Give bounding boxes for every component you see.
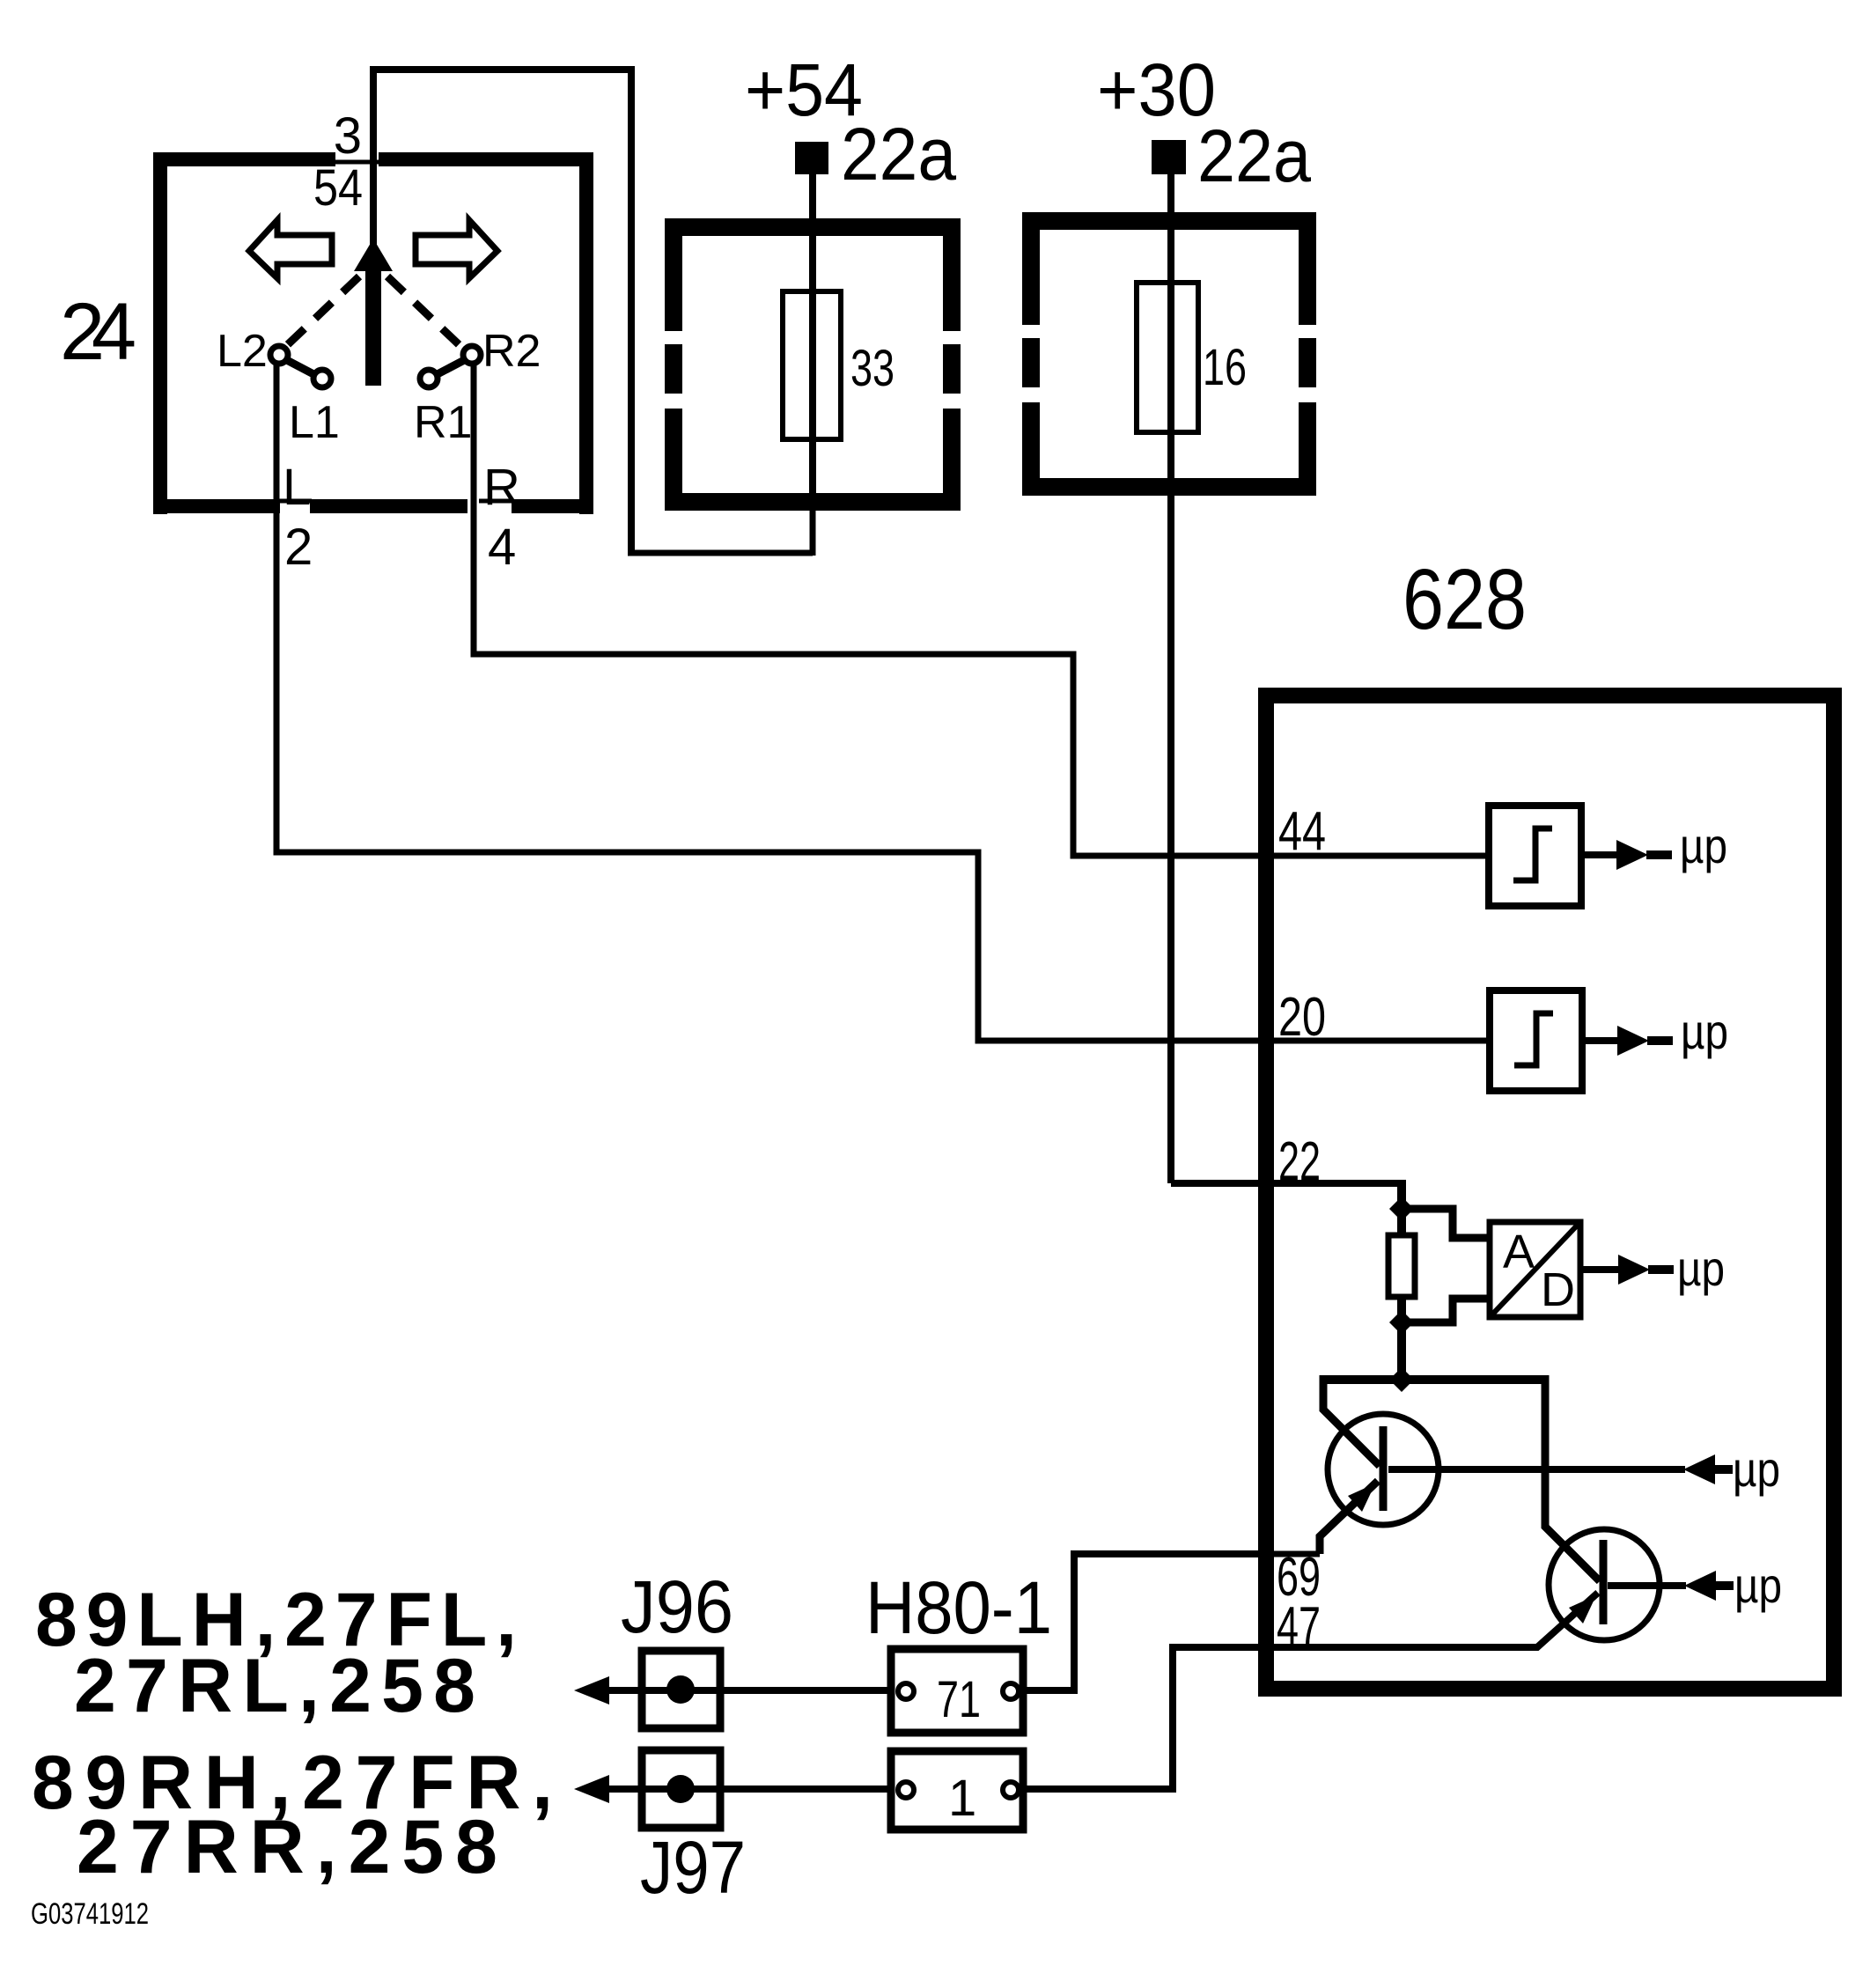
transistor Q1 circle xyxy=(1328,1414,1439,1525)
svg-text:16: 16 xyxy=(1203,339,1247,396)
svg-text:2: 2 xyxy=(284,519,313,576)
left direction arrow icon xyxy=(249,220,332,278)
svg-text:µp: µp xyxy=(1677,1241,1725,1296)
svg-text:4: 4 xyxy=(488,519,516,576)
svg-text:L: L xyxy=(283,459,311,516)
svg-text:R1: R1 xyxy=(414,397,472,448)
arrow A/D to microprocessor xyxy=(1618,1255,1650,1285)
comparator 1 box xyxy=(1489,806,1581,906)
arrow comparator 1 to microprocessor xyxy=(1616,840,1648,870)
svg-text:22: 22 xyxy=(1278,1131,1321,1192)
contact L2 xyxy=(270,346,288,364)
wire comparator 2 output xyxy=(1582,1037,1619,1044)
comparator 2 box xyxy=(1490,990,1582,1091)
wire Q1 emitter xyxy=(1320,1481,1378,1554)
contact R1 xyxy=(420,370,438,387)
arrow Q1 emitter xyxy=(1348,1484,1375,1512)
wire 71 to pin 69 xyxy=(1023,1554,1273,1690)
svg-text:A: A xyxy=(1503,1226,1535,1278)
wire pin22 chain down xyxy=(1397,1180,1406,1380)
pin tick pin3 xyxy=(313,160,379,165)
resistor xyxy=(1388,1235,1415,1297)
svg-text:22a: 22a xyxy=(1197,114,1311,197)
arrow Q2 emitter xyxy=(1569,1595,1596,1624)
contact blade R2-R1 xyxy=(434,357,469,376)
wire node horizontal xyxy=(1323,1375,1545,1384)
fuse 33 holder box (dashed) xyxy=(665,218,961,511)
transistor Q2 circle xyxy=(1549,1529,1660,1640)
wire +54 through fuse 33 xyxy=(809,173,816,509)
wire Q1 base xyxy=(1323,1375,1380,1466)
wire top horizontal xyxy=(370,66,635,73)
arrow out J96 xyxy=(574,1676,609,1705)
wire A/D output xyxy=(1580,1266,1620,1273)
turn signal switch 24 box xyxy=(153,152,593,514)
svg-text:20: 20 xyxy=(1278,987,1326,1048)
wire branch lower to A/D xyxy=(1402,1299,1490,1322)
svg-text:24: 24 xyxy=(60,287,136,377)
arrow out J97 xyxy=(574,1775,609,1803)
svg-text:1: 1 xyxy=(948,1770,976,1827)
svg-text:µp: µp xyxy=(1734,1557,1782,1613)
arrow microprocessor to Q2 xyxy=(1684,1571,1716,1601)
svg-text:27RR,258: 27RR,258 xyxy=(77,1805,497,1889)
contact R2 xyxy=(463,346,481,364)
svg-text:J97: J97 xyxy=(640,1826,746,1909)
contact L1 xyxy=(313,370,331,387)
pin tick pin L xyxy=(278,499,312,504)
svg-text:44: 44 xyxy=(1278,801,1326,862)
wire fuse33 bottom lead xyxy=(810,507,816,556)
svg-text:27RL,258: 27RL,258 xyxy=(74,1644,475,1728)
wire Q1 collector to microprocessor xyxy=(1388,1466,1685,1473)
fuse element 33 xyxy=(783,291,841,439)
svg-text:L2: L2 xyxy=(217,326,268,377)
arrow comparator 2 to microprocessor xyxy=(1617,1026,1649,1056)
svg-text:22a: 22a xyxy=(841,113,956,195)
wire Q2 emitter and pin 47 xyxy=(1271,1593,1598,1647)
bulb H80-1 pin 1 box xyxy=(891,1751,1023,1830)
wire pin 69 xyxy=(1271,1551,1320,1557)
comparator 2 step symbol xyxy=(1514,1013,1553,1065)
arrow microprocessor to Q1 xyxy=(1683,1454,1715,1484)
transistor Q1 bar xyxy=(1380,1426,1388,1511)
wire pin3 up xyxy=(370,70,377,245)
svg-text:54: 54 xyxy=(313,159,363,217)
terminal square +30 xyxy=(1152,140,1186,174)
wire 1 to pin 47 xyxy=(1023,1647,1273,1789)
junction node 3 xyxy=(1389,1367,1414,1392)
comparator 1 step symbol xyxy=(1513,828,1552,880)
connector J97 dot xyxy=(666,1775,695,1803)
wire comparator 1 output xyxy=(1581,851,1618,858)
pin circle 71 right xyxy=(1003,1683,1019,1699)
wire Q2 collector to microprocessor xyxy=(1608,1582,1686,1589)
fuse element 16 xyxy=(1137,283,1198,432)
junction node 1 xyxy=(1389,1196,1414,1221)
dashed contact throw right xyxy=(387,276,463,349)
svg-text:D: D xyxy=(1541,1263,1575,1316)
terminal square +54 xyxy=(795,142,828,174)
svg-text:L1: L1 xyxy=(289,397,340,448)
transistor Q2 bar xyxy=(1600,1540,1608,1624)
contact blade L2-L1 xyxy=(282,357,317,376)
dashed contact throw left xyxy=(283,276,359,349)
pin circle 71 left xyxy=(898,1683,914,1699)
A/D diagonal xyxy=(1491,1224,1579,1315)
svg-text:R2: R2 xyxy=(482,326,541,377)
svg-text:µp: µp xyxy=(1681,1004,1728,1059)
connector J96 box xyxy=(642,1651,720,1728)
bulb H80-1 pin 71 box xyxy=(891,1649,1023,1733)
junction node 2 xyxy=(1389,1310,1414,1335)
pin circle 1 right xyxy=(1003,1782,1019,1798)
control module 628 box xyxy=(1266,696,1834,1689)
wire L2 down to pin 2 and to module pin 20 xyxy=(276,363,1490,1041)
connector J96 dot xyxy=(666,1675,695,1704)
svg-text:µp: µp xyxy=(1680,818,1727,873)
svg-text:R: R xyxy=(483,459,520,516)
svg-text:G03741912: G03741912 xyxy=(31,1897,149,1931)
wire loop right vertical xyxy=(628,66,635,553)
switch lever arrow xyxy=(354,239,393,386)
wire branch upper to A/D xyxy=(1402,1209,1490,1238)
fuse 16 holder box (dashed) xyxy=(1022,212,1316,496)
pin circle 1 left xyxy=(898,1782,914,1798)
wire +30 down to module pin 22 xyxy=(1171,174,1402,1183)
wire J97 row xyxy=(607,1786,891,1793)
svg-text:628: 628 xyxy=(1402,551,1527,647)
svg-text:3: 3 xyxy=(334,107,362,165)
wire R2 down to pin 4 and to module pin 44 xyxy=(474,363,1489,856)
svg-text:71: 71 xyxy=(937,1671,981,1728)
wire Q2 base xyxy=(1545,1375,1600,1581)
A/D converter box xyxy=(1490,1222,1580,1317)
svg-text:J96: J96 xyxy=(621,1565,733,1648)
right direction arrow icon xyxy=(416,220,497,278)
svg-text:µp: µp xyxy=(1733,1441,1780,1497)
wire loop bottom horizontal xyxy=(628,550,813,556)
wire J96 row xyxy=(607,1687,891,1694)
connector J97 box xyxy=(642,1750,720,1828)
pin tick pin R xyxy=(479,499,512,504)
svg-text:H80-1: H80-1 xyxy=(865,1566,1052,1649)
svg-text:33: 33 xyxy=(850,340,895,397)
